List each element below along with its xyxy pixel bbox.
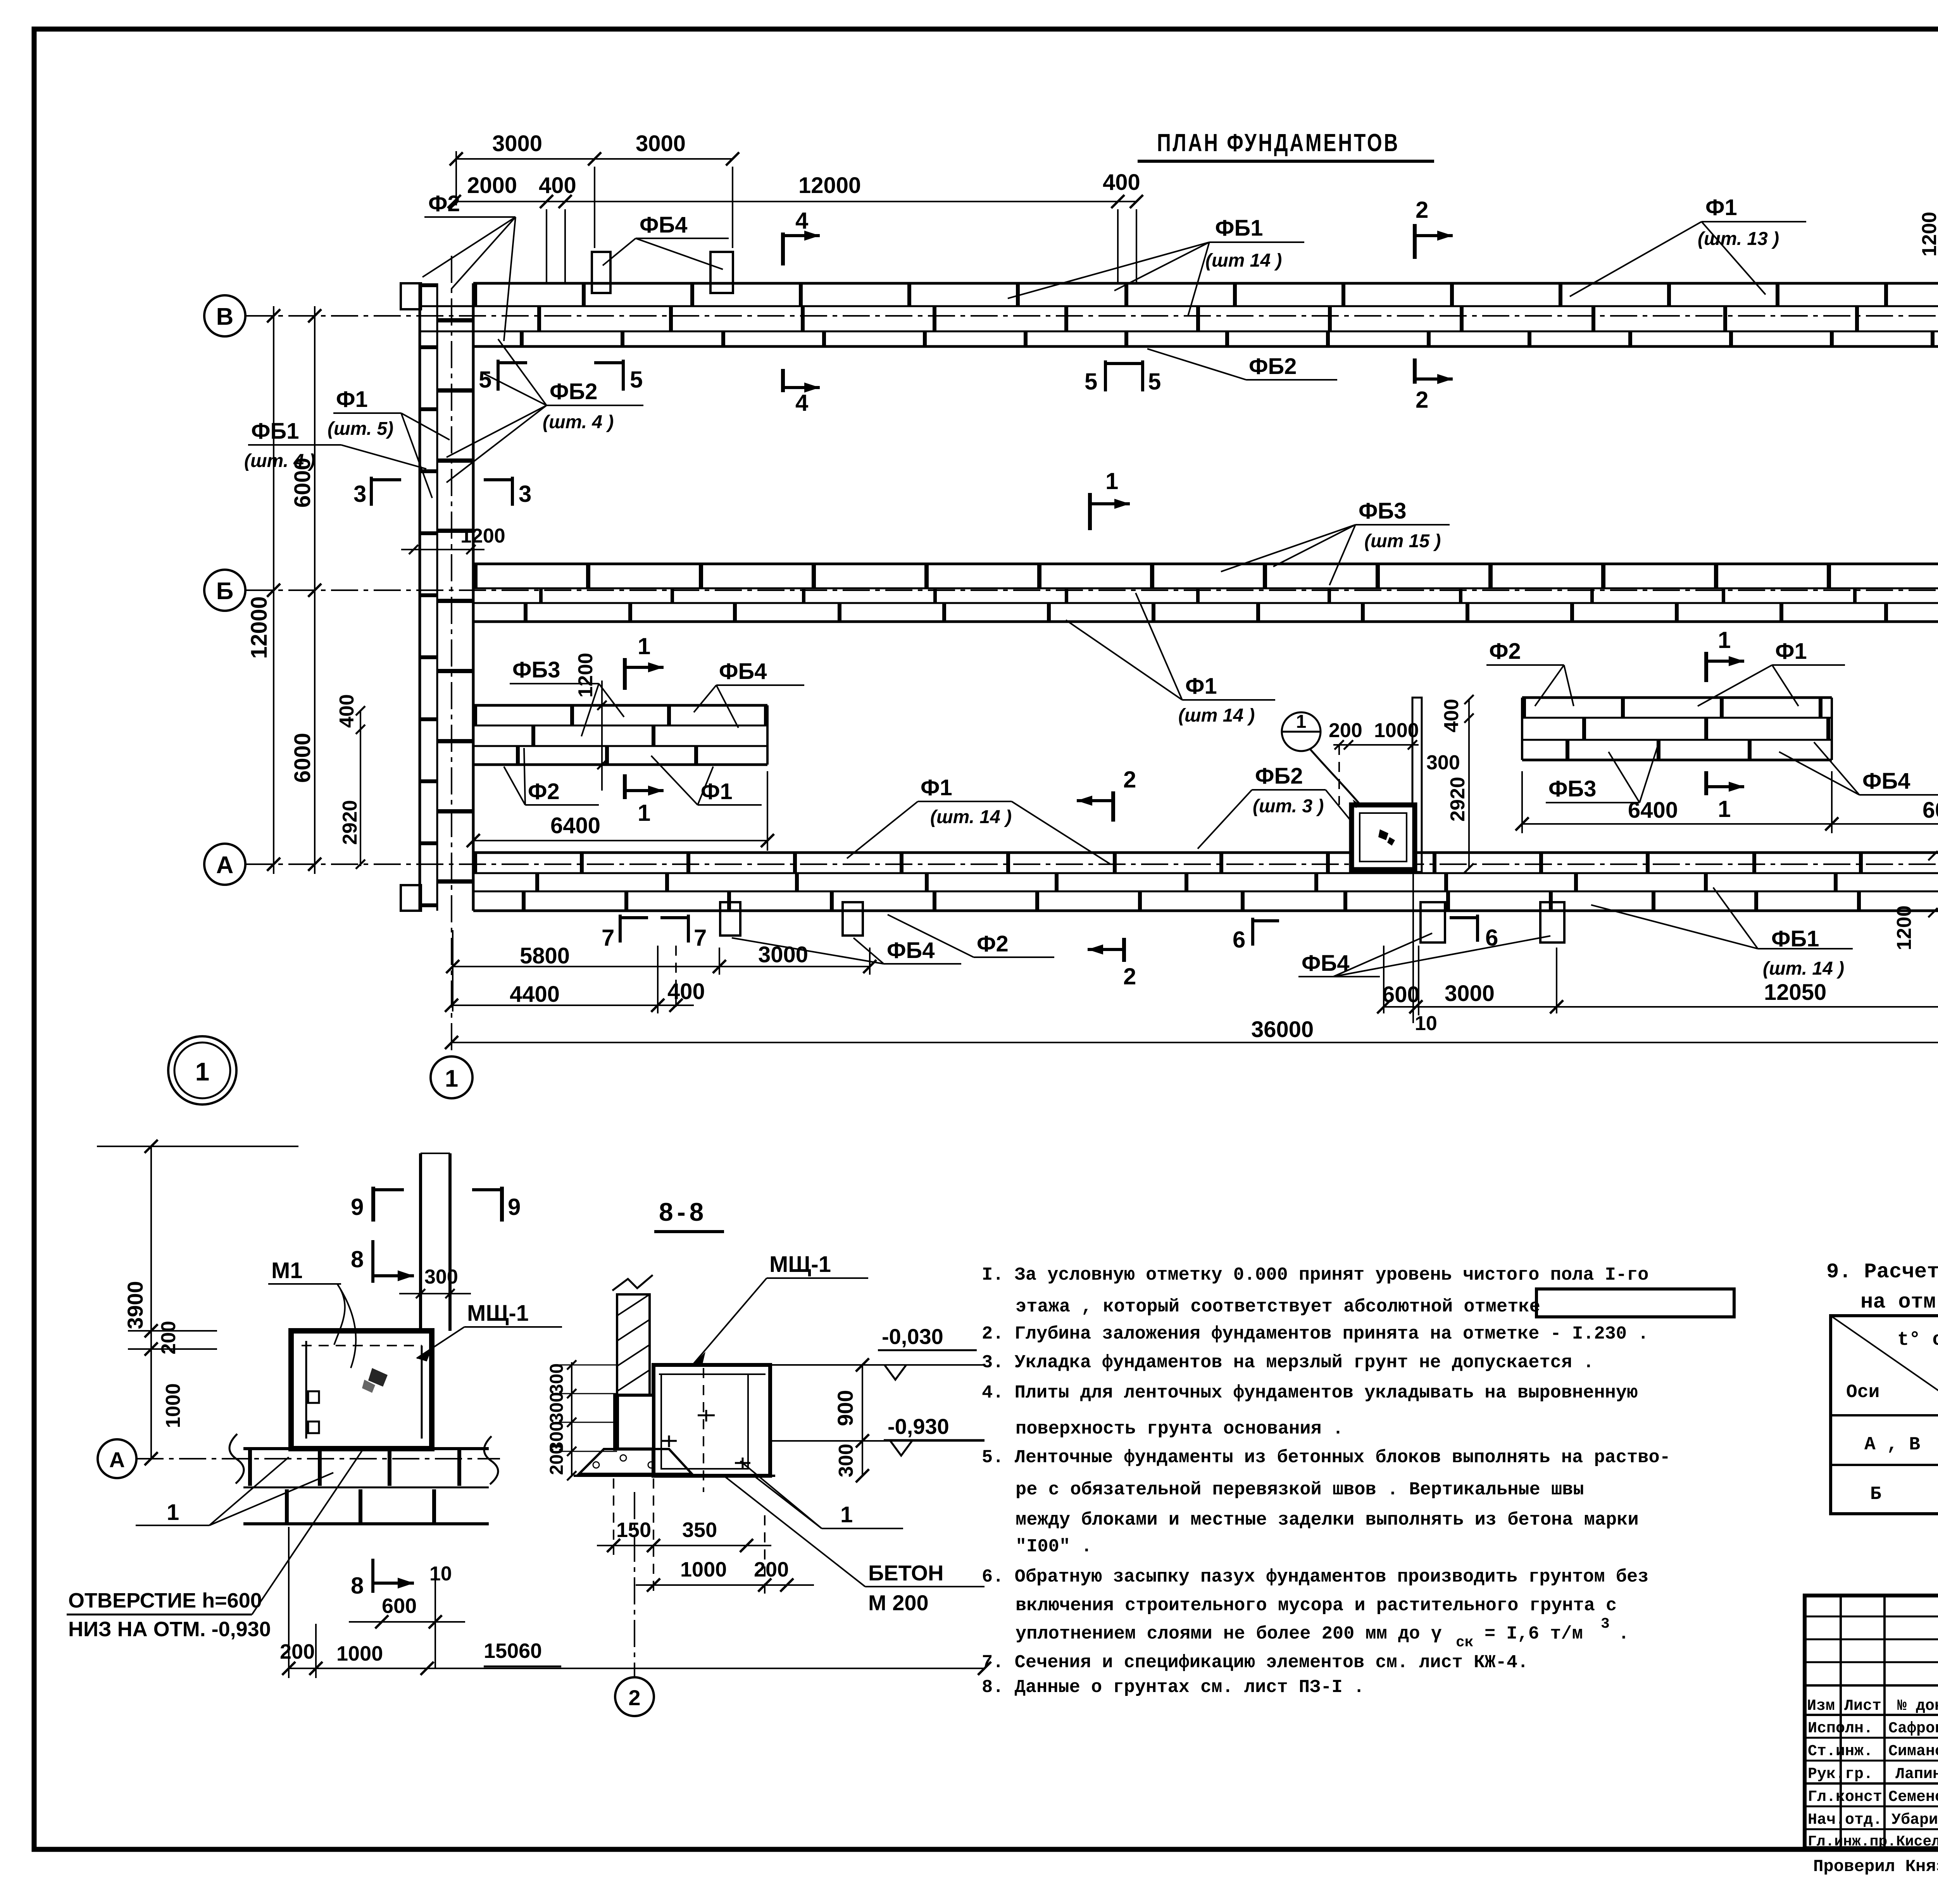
ФБ4 stub below A wall 4: [1540, 902, 1564, 943]
ФБ4 stub below A wall 1: [720, 902, 740, 936]
8-8 dim 300 lower: [862, 1441, 863, 1476]
svg-text:ФБ2: ФБ2: [1255, 763, 1303, 789]
left wall corner block top: [401, 283, 421, 309]
svg-text:(шт. 3 ): (шт. 3 ): [1253, 796, 1324, 817]
detail marker double circle 1: [168, 1036, 236, 1104]
bottom dim line 600 3000 12050: [1384, 1006, 1938, 1008]
wall row B joints row3: [473, 331, 1938, 346]
svg-text:(шт. 4 ): (шт. 4 ): [244, 451, 315, 471]
M1 foundation band below axis: [243, 1447, 489, 1450]
wall row A joints row1: [473, 853, 1938, 872]
svg-text:5: 5: [630, 367, 643, 393]
svg-text:ОТВЕРСТИЕ h=600: ОТВЕРСТИЕ h=600: [68, 1589, 262, 1612]
svg-text:(шт 15 ): (шт 15 ): [1364, 531, 1441, 551]
svg-text:9. Расчетная нагрузка на фунда: 9. Расчетная нагрузка на фундаменты при …: [1826, 1260, 1938, 1284]
dim 6400 interior wall 1: [473, 840, 767, 841]
svg-text:3: 3: [1601, 1616, 1610, 1632]
svg-text:12050: 12050: [1764, 980, 1826, 1005]
svg-text:ФБ4: ФБ4: [719, 659, 767, 684]
top dimension line 2000 400 12000 400: [454, 201, 1136, 202]
8-8 left dims 300 300 300 200: [571, 1362, 572, 1477]
svg-text:Сафронеева: Сафронеева: [1888, 1720, 1938, 1737]
svg-text:Гл.конст: Гл.конст: [1808, 1789, 1882, 1806]
wall row B band line2: [420, 305, 1938, 307]
svg-text:ФБ4: ФБ4: [887, 938, 935, 963]
svg-text:1000: 1000: [162, 1383, 184, 1428]
left wall corner block bottom: [401, 885, 421, 911]
wall row A band bottom line: [473, 910, 1938, 912]
svg-text:1200: 1200: [574, 653, 597, 698]
svg-text:МЩ-1: МЩ-1: [769, 1252, 831, 1277]
svg-text:2: 2: [1123, 767, 1136, 793]
svg-text:6000: 6000: [1922, 798, 1938, 823]
svg-text:2: 2: [1416, 387, 1428, 413]
svg-text:1: 1: [1718, 627, 1731, 653]
svg-text:1000: 1000: [1374, 719, 1419, 742]
svg-text:между блоками и местные заделк: между блоками и местные заделки выполнят…: [1016, 1510, 1639, 1530]
svg-text:8: 8: [351, 1573, 364, 1599]
svg-text:Гл.инж.пр.Киселева: Гл.инж.пр.Киселева: [1808, 1833, 1938, 1850]
title block left grid horizontals: [1805, 1616, 1938, 1618]
axis Б line: [246, 589, 1938, 591]
interior wall 1 line2: [473, 725, 767, 727]
title block left grid verticals: [1840, 1596, 1842, 1848]
8-8 level -0,930: [770, 1440, 985, 1442]
8-8 dim 900: [862, 1365, 863, 1441]
wall row B joints row2: [473, 306, 1938, 331]
svg-text:ФБ2: ФБ2: [550, 379, 597, 404]
svg-text:1: 1: [1718, 796, 1731, 822]
svg-text:5: 5: [479, 367, 491, 393]
axis A circle: [204, 844, 245, 885]
svg-text:ПЛАН ФУНДАМЕНТОВ: ПЛАН ФУНДАМЕНТОВ: [1157, 129, 1400, 157]
wall row B joints row1: [473, 283, 1938, 306]
svg-text:1: 1: [638, 800, 650, 826]
svg-text:8. Данные о грунтах см. лист П: 8. Данные о грунтах см. лист ПЗ-I .: [982, 1677, 1364, 1698]
svg-text:4. Плиты для ленточных фундаме: 4. Плиты для ленточных фундаментов уклад…: [982, 1383, 1638, 1403]
wall row A band line3: [473, 891, 1938, 893]
svg-text:400: 400: [539, 173, 576, 198]
left wall middle line: [436, 283, 438, 911]
svg-text:этажа , который соответствует: этажа , который соответствует абсолютной…: [1016, 1297, 1540, 1317]
svg-text:включения строительного мусора: включения строительного мусора и растите…: [1016, 1596, 1617, 1616]
8-8 left column: [615, 1395, 653, 1449]
svg-text:ФБ2: ФБ2: [1249, 354, 1297, 379]
svg-text:А: А: [109, 1447, 125, 1472]
interior wall 1 bottom line: [473, 763, 767, 766]
8-8 level -0,030: [770, 1364, 985, 1366]
svg-text:Б: Б: [216, 578, 234, 605]
ФБ4 stub below A wall 2: [843, 902, 863, 936]
svg-text:А: А: [216, 852, 234, 879]
interior wall 1 top line: [473, 704, 767, 707]
svg-text:400: 400: [1440, 699, 1463, 732]
svg-text:Ст.инж.: Ст.инж.: [1808, 1743, 1873, 1760]
svg-text:А , В: А , В: [1864, 1434, 1920, 1455]
svg-text:300: 300: [547, 1363, 567, 1394]
svg-text:.: .: [1618, 1624, 1629, 1644]
svg-text:8: 8: [351, 1246, 364, 1272]
wall row A joints row3: [473, 892, 1938, 910]
axis 1 line vertical: [451, 256, 452, 1055]
svg-text:200: 200: [280, 1640, 315, 1663]
svg-text:= I,6 т/м: = I,6 т/м: [1485, 1624, 1583, 1644]
left wall inner line: [472, 283, 475, 911]
interior wall 2 top line: [1522, 696, 1832, 699]
svg-text:5. Ленточные фундаменты из бет: 5. Ленточные фундаменты из бетонных блок…: [982, 1447, 1671, 1468]
svg-text:Исполн.: Исполн.: [1808, 1720, 1873, 1737]
svg-text:ФБ3: ФБ3: [1548, 776, 1596, 801]
svg-text:(шт. 4 ): (шт. 4 ): [543, 412, 614, 432]
M1 detail chimney wall: [419, 1153, 422, 1331]
dim 6400 interior wall 2: [1522, 823, 1832, 825]
wall row Б joints row3: [473, 604, 1938, 621]
svg-text:ФБ3: ФБ3: [512, 657, 560, 682]
svg-text:ФБ1: ФБ1: [1771, 926, 1819, 951]
wall row Б band top line: [473, 563, 1938, 565]
svg-text:12000: 12000: [247, 596, 272, 659]
svg-text:300: 300: [547, 1392, 567, 1423]
svg-text:600: 600: [1382, 982, 1420, 1007]
svg-text:9: 9: [508, 1194, 521, 1220]
left dim 400/2920: [360, 711, 361, 866]
svg-text:1200: 1200: [1893, 905, 1916, 950]
svg-text:7: 7: [694, 925, 707, 951]
svg-text:1000: 1000: [336, 1642, 383, 1665]
svg-text:Рук.гр.: Рук.гр.: [1808, 1766, 1873, 1783]
svg-text:на отм. -0.33 принята :: на отм. -0.33 принята :: [1860, 1291, 1938, 1314]
svg-text:5: 5: [1085, 369, 1097, 395]
svg-text:300: 300: [835, 1444, 857, 1477]
svg-text:Симановская: Симановская: [1888, 1743, 1938, 1760]
8-8 bottom dim 150 350: [597, 1545, 771, 1546]
loads table frame: [1831, 1316, 1938, 1514]
axis B circle: [204, 295, 245, 336]
svg-text:ск: ск: [1456, 1634, 1474, 1651]
svg-text:3000: 3000: [758, 942, 808, 967]
wall row Б joints row1: [473, 564, 1938, 588]
axis A line: [246, 863, 1938, 865]
interior wall 1 right cap: [766, 705, 769, 765]
axis Б circle: [204, 570, 245, 611]
svg-text:Нач.отд.: Нач.отд.: [1808, 1811, 1882, 1829]
svg-text:ре с обязательной перевязкой ш: ре с обязательной перевязкой швов . Верт…: [1016, 1480, 1584, 1500]
svg-text:900: 900: [833, 1390, 857, 1426]
svg-text:3900: 3900: [123, 1281, 147, 1329]
svg-text:2920: 2920: [339, 800, 361, 845]
svg-text:12000: 12000: [798, 173, 861, 198]
left vertical dimension line 6000/6000: [314, 306, 316, 874]
svg-text:4400: 4400: [510, 982, 560, 1007]
svg-text:Б: Б: [1870, 1484, 1881, 1505]
svg-text:Убариев: Убариев: [1891, 1811, 1938, 1829]
8-8 axis circle 2: [634, 1492, 635, 1677]
svg-text:ФБ4: ФБ4: [640, 212, 687, 238]
svg-text:3: 3: [519, 481, 531, 507]
svg-text:Ф1: Ф1: [336, 387, 368, 412]
thin partition wall above pit: [1412, 698, 1422, 872]
svg-text:Ф1: Ф1: [701, 779, 733, 804]
svg-text:3. Укладка фундаментов на мерз: 3. Укладка фундаментов на мерзлый грунт …: [982, 1353, 1594, 1373]
svg-text:поверхность грунта основания .: поверхность грунта основания .: [1016, 1419, 1343, 1439]
axis 1 circle: [431, 1056, 472, 1098]
svg-text:t° с: t° с: [1897, 1329, 1938, 1351]
notes empty box: [1536, 1289, 1734, 1317]
svg-text:Ф1: Ф1: [1705, 195, 1737, 220]
svg-text:8-8: 8-8: [659, 1198, 707, 1226]
8-8 footing trapezoid: [579, 1449, 692, 1474]
svg-text:Ф1: Ф1: [1185, 674, 1217, 699]
svg-text:4: 4: [795, 390, 809, 416]
svg-text:1: 1: [167, 1500, 179, 1525]
svg-text:1000: 1000: [680, 1558, 727, 1581]
svg-text:БЕТОН: БЕТОН: [868, 1561, 943, 1585]
svg-text:7: 7: [602, 925, 614, 951]
svg-text:350: 350: [682, 1518, 717, 1542]
svg-text:15060: 15060: [484, 1639, 542, 1663]
svg-text:1: 1: [1296, 712, 1307, 732]
svg-text:1: 1: [638, 633, 650, 659]
interior wall 2 right cap: [1831, 698, 1833, 760]
svg-text:400: 400: [336, 694, 358, 728]
svg-text:1200: 1200: [460, 525, 505, 547]
svg-text:9: 9: [351, 1194, 364, 1220]
svg-text:М1: М1: [271, 1258, 303, 1283]
left wall outer line: [419, 283, 421, 911]
svg-text:ФБ1: ФБ1: [251, 419, 299, 444]
svg-text:200: 200: [754, 1558, 789, 1581]
bottom dim line 36000: [452, 1042, 1938, 1043]
wall row A band top line: [473, 851, 1938, 854]
svg-text:300: 300: [1426, 751, 1460, 774]
svg-text:600: 600: [382, 1594, 417, 1618]
svg-text:2920: 2920: [1447, 777, 1469, 822]
top dimension line 3000 3000: [456, 158, 733, 160]
svg-text:2: 2: [628, 1685, 640, 1710]
svg-text:"I00" .: "I00" .: [1016, 1537, 1092, 1557]
svg-text:6: 6: [1233, 927, 1245, 953]
svg-text:3: 3: [353, 481, 366, 507]
M1 detail axis A circle: [98, 1439, 136, 1478]
svg-text:1200: 1200: [1936, 532, 1938, 577]
wall row B band line3: [420, 331, 1938, 333]
svg-text:5: 5: [1148, 369, 1161, 395]
wall row Б band bottom line: [473, 620, 1938, 623]
svg-text:В: В: [216, 303, 234, 330]
svg-text:уплотнением слоями не более 20: уплотнением слоями не более 200 мм до γ: [1016, 1624, 1442, 1644]
wall row B band top line: [473, 282, 1938, 285]
svg-text:Проверил Князева: Проверил Князева: [1813, 1857, 1938, 1876]
wall row A band line2: [473, 872, 1938, 874]
svg-text:1: 1: [445, 1065, 458, 1092]
svg-text:6400: 6400: [1628, 798, 1678, 823]
wall row Б band line2: [473, 588, 1938, 589]
svg-text:(шт. 14 ): (шт. 14 ): [1763, 958, 1844, 979]
position mark circle 1 near pit: [1282, 712, 1321, 751]
svg-text:200: 200: [157, 1321, 180, 1354]
svg-text:МЩ-1: МЩ-1: [467, 1301, 529, 1326]
svg-text:Ф2: Ф2: [977, 931, 1009, 956]
svg-text:10: 10: [1415, 1012, 1437, 1035]
svg-text:№ докум.: № докум.: [1897, 1697, 1938, 1715]
svg-text:6000: 6000: [290, 733, 315, 783]
svg-text:3000: 3000: [492, 131, 542, 156]
bottom dim line 4400 400: [452, 1005, 694, 1006]
svg-text:7. Сечения и спецификацию элем: 7. Сечения и спецификацию элементов см. …: [982, 1652, 1528, 1673]
8-8 МЩ-1 box: [653, 1365, 770, 1476]
M1 detail vertical dim 3900 200 1000: [150, 1146, 152, 1459]
svg-text:ФБ1: ФБ1: [1215, 215, 1263, 241]
svg-text:Ф2: Ф2: [528, 779, 560, 804]
M1 detail pit walls: [291, 1331, 432, 1449]
ФБ4 stub block above B wall right: [710, 252, 733, 293]
svg-text:Лапина: Лапина: [1895, 1766, 1938, 1783]
svg-text:36000: 36000: [1251, 1017, 1314, 1042]
M1 bottom dim 200 1000 15060: [289, 1668, 985, 1669]
ФБ4 stub below A wall 3: [1421, 902, 1445, 943]
svg-text:200: 200: [547, 1444, 567, 1475]
svg-text:-0,030: -0,030: [882, 1324, 943, 1349]
title block outer frame: [1805, 1596, 1938, 1848]
svg-text:1200: 1200: [1918, 212, 1938, 257]
interior wall 1 joints: [473, 706, 767, 725]
svg-text:Ф2: Ф2: [1489, 639, 1521, 664]
interior wall 2 line2: [1522, 717, 1832, 719]
interior wall 1 line3: [473, 745, 767, 747]
svg-text:2. Глубина заложения фундамент: 2. Глубина заложения фундаментов принята…: [982, 1324, 1648, 1344]
svg-text:(шт. 5): (шт. 5): [328, 419, 393, 439]
wall row Б joints row2: [473, 589, 1938, 603]
8-8 masonry wall hatched: [617, 1294, 650, 1395]
axis B line: [246, 315, 1938, 317]
svg-text:10: 10: [429, 1563, 452, 1585]
svg-text:Ф1: Ф1: [1775, 639, 1807, 664]
svg-text:4: 4: [795, 208, 809, 234]
wall row A joints row2: [473, 874, 1938, 891]
dim 400 2920 right of pit: [1468, 700, 1470, 868]
interior wall 2 line3: [1522, 739, 1832, 741]
svg-text:3000: 3000: [1445, 981, 1495, 1006]
svg-text:2000: 2000: [467, 173, 517, 198]
svg-text:ФБ3: ФБ3: [1359, 498, 1406, 524]
bottom dim line 5800 3000: [453, 966, 870, 967]
svg-text:200: 200: [1329, 719, 1362, 742]
wall row Б band line3: [473, 602, 1938, 604]
svg-text:(шт 14 ): (шт 14 ): [1205, 250, 1282, 271]
svg-text:1: 1: [1105, 468, 1118, 494]
svg-text:Ф2: Ф2: [428, 191, 460, 216]
svg-text:1: 1: [840, 1502, 853, 1527]
svg-text:-0,930: -0,930: [888, 1414, 949, 1439]
svg-text:400: 400: [667, 979, 705, 1004]
svg-text:400: 400: [1103, 170, 1140, 195]
left wall joints col2: [438, 283, 473, 911]
svg-text:ФБ4: ФБ4: [1862, 768, 1910, 794]
svg-text:2: 2: [1123, 963, 1136, 989]
svg-text:300: 300: [424, 1266, 458, 1288]
pit МЩ (monolithic): [1352, 805, 1415, 870]
svg-text:Семенов: Семенов: [1888, 1789, 1938, 1806]
ФБ4 stub block above B wall left: [592, 252, 610, 293]
dim 6000 interior wall 2 to axis 2: [1832, 823, 1938, 825]
svg-text:6400: 6400: [550, 813, 600, 838]
svg-text:3000: 3000: [636, 131, 686, 156]
left vertical dimension line 12000: [273, 306, 274, 874]
interior wall 2 bottom line: [1522, 759, 1832, 762]
svg-text:Оси: Оси: [1846, 1382, 1879, 1403]
svg-text:Ф1: Ф1: [921, 775, 952, 800]
interior wall 2 joints: [1522, 698, 1832, 717]
svg-text:(шт 14 ): (шт 14 ): [1178, 705, 1255, 726]
svg-text:Изм: Изм: [1807, 1697, 1835, 1715]
wall row B band bottom line: [473, 345, 1938, 348]
svg-text:1: 1: [195, 1057, 210, 1086]
svg-text:I. За условную отметку 0.000: I. За условную отметку 0.000 принят уров…: [982, 1265, 1648, 1285]
svg-text:М 200: М 200: [868, 1590, 929, 1615]
svg-text:2: 2: [1416, 197, 1428, 223]
svg-text:(шт. 14 ): (шт. 14 ): [930, 807, 1012, 827]
svg-text:НИЗ НА ОТМ. -0,930: НИЗ НА ОТМ. -0,930: [68, 1618, 271, 1641]
left wall joints col1: [420, 283, 437, 911]
svg-text:Лист: Лист: [1844, 1697, 1881, 1715]
8-8 bottom dim 1000 200: [636, 1584, 814, 1586]
svg-text:5800: 5800: [520, 943, 570, 968]
svg-text:6. Обратную засыпку пазух фунд: 6. Обратную засыпку пазух фундаментов пр…: [982, 1567, 1648, 1587]
interior wall 2 left cap: [1521, 698, 1523, 760]
